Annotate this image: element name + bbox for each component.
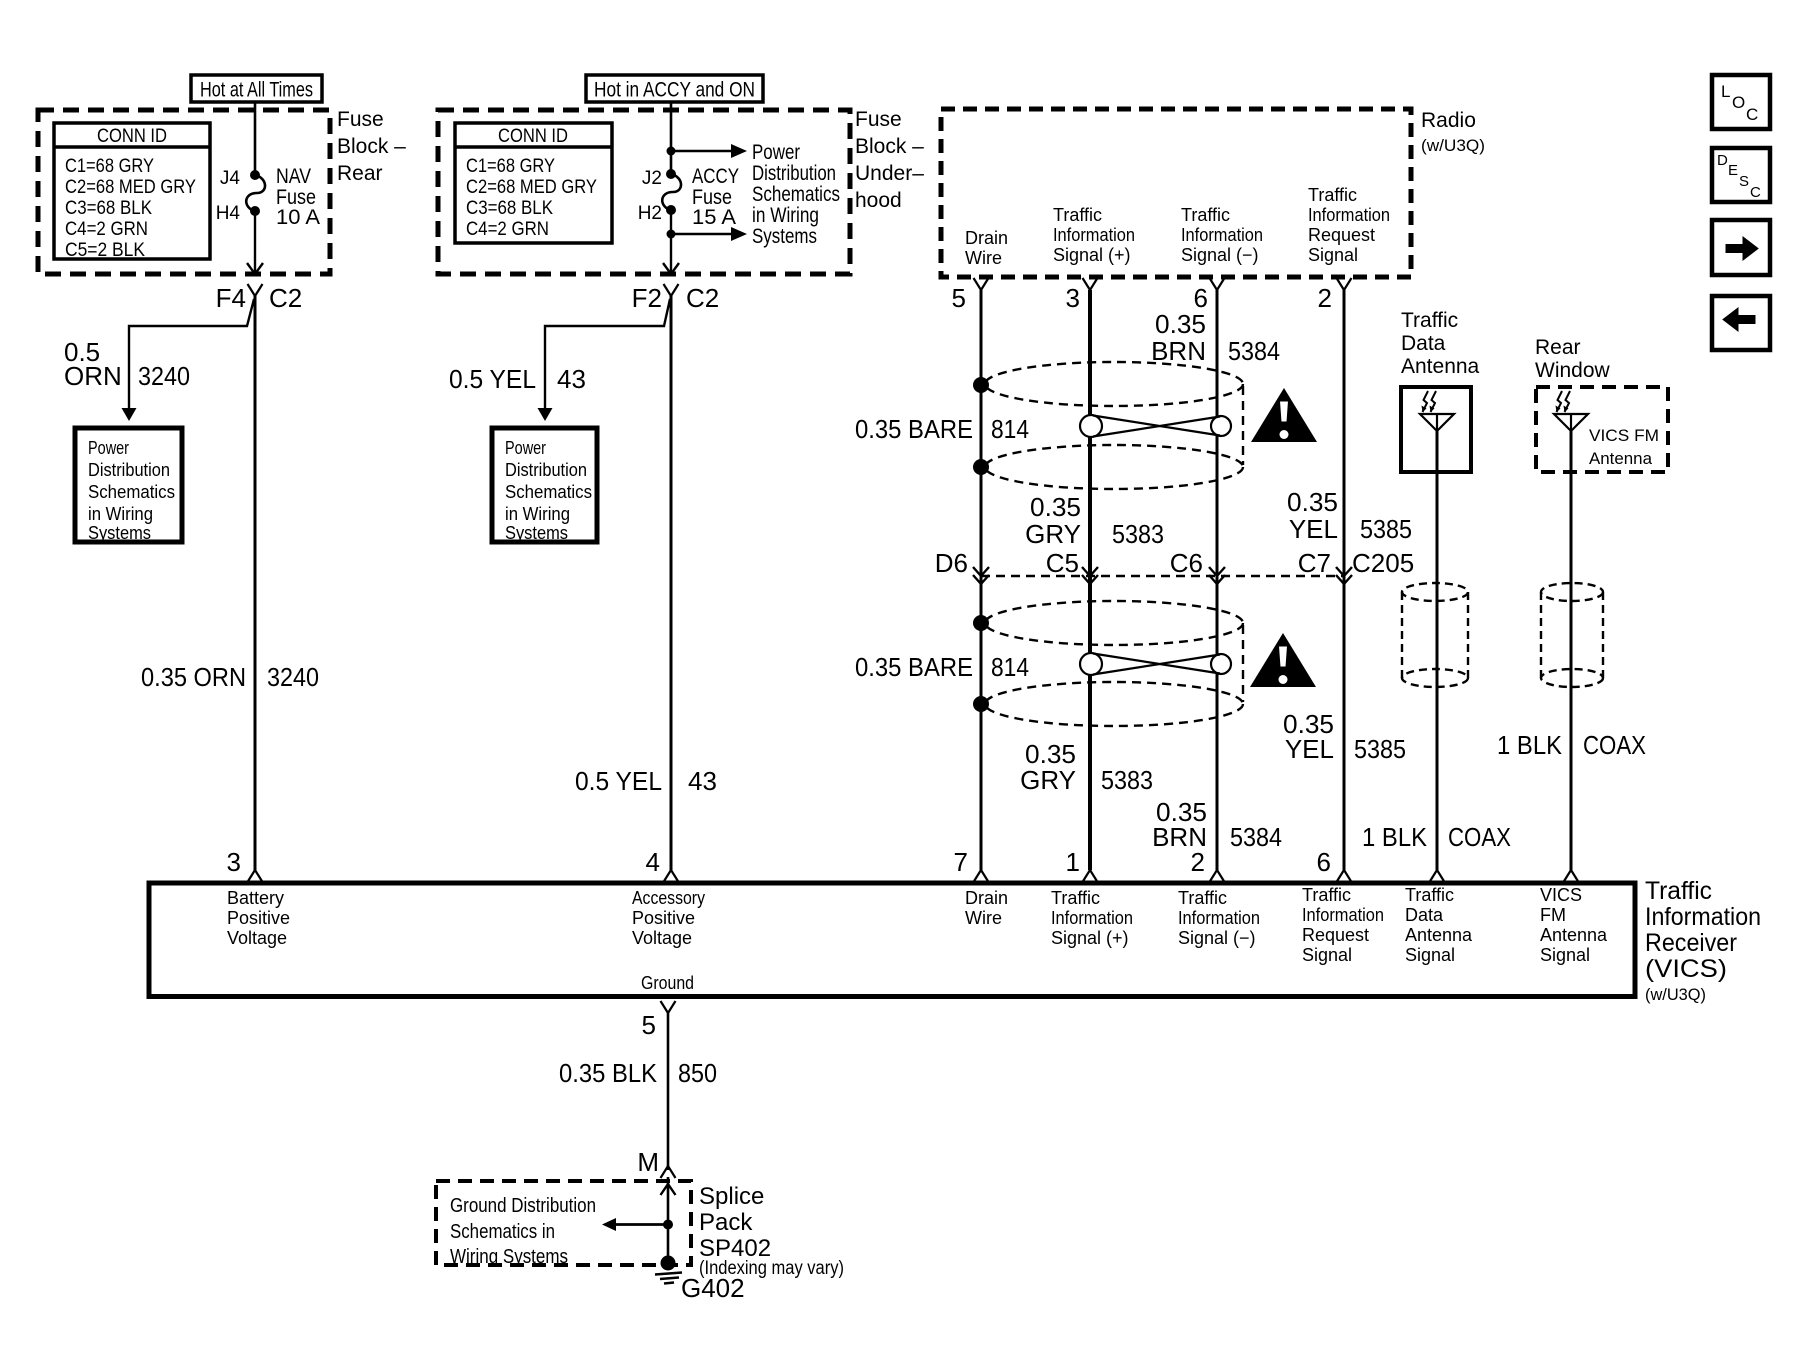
svg-text:Information: Information — [1308, 205, 1390, 225]
svg-text:L: L — [1721, 82, 1730, 101]
svg-text:Traffic: Traffic — [1308, 185, 1357, 205]
wire: traffic information request signal YEL 5385 — [1343, 290, 1346, 870]
svg-text:Systems: Systems — [88, 523, 151, 543]
reference box: Power Distribution Schematics (middle) — [492, 428, 597, 542]
warning symbol (lower) — [1250, 633, 1316, 687]
svg-text:5: 5 — [952, 283, 966, 313]
svg-text:H4: H4 — [216, 203, 241, 224]
reference box: Power Distribution Schematics (left) — [75, 428, 182, 542]
wire: NAV fuse output to connector C2 — [254, 211, 256, 273]
svg-text:Schematics: Schematics — [88, 482, 175, 502]
svg-text:1: 1 — [1066, 847, 1080, 877]
svg-text:CONN ID: CONN ID — [498, 126, 568, 147]
svg-text:Data: Data — [1405, 905, 1444, 925]
svg-text:Accessory: Accessory — [632, 888, 705, 908]
svg-text:6: 6 — [1317, 847, 1331, 877]
svg-text:3: 3 — [1066, 283, 1080, 313]
svg-text:COAX: COAX — [1583, 730, 1646, 760]
svg-text:C: C — [1750, 184, 1761, 201]
svg-text:Request: Request — [1308, 225, 1375, 245]
svg-text:2: 2 — [1318, 283, 1332, 313]
VICS FM antenna symbol — [1554, 414, 1588, 431]
warning symbol (upper) — [1251, 388, 1317, 442]
svg-text:YEL: YEL — [1285, 734, 1334, 764]
svg-text:BRN: BRN — [1151, 336, 1206, 366]
svg-text:Information: Information — [1051, 908, 1133, 928]
wire: 0.35 ORN 3240 to receiver pin 3 — [254, 296, 257, 870]
svg-text:Systems: Systems — [505, 523, 568, 543]
svg-text:G402: G402 — [681, 1273, 745, 1303]
svg-text:F4: F4 — [216, 283, 246, 313]
svg-text:Information: Information — [1645, 903, 1761, 931]
wire: 0.35 BLK 850 ground wire — [667, 1012, 670, 1170]
svg-text:CONN ID: CONN ID — [97, 126, 167, 147]
svg-text:3240: 3240 — [138, 361, 190, 391]
twisted pair shield (upper) — [985, 362, 1243, 406]
svg-text:Schematics: Schematics — [505, 482, 592, 502]
svg-text:Power: Power — [505, 438, 546, 458]
junction: feed to power distribution (lower) — [667, 230, 676, 239]
svg-text:0.35 BARE: 0.35 BARE — [855, 652, 973, 682]
svg-text:0.35: 0.35 — [1155, 309, 1206, 339]
svg-text:C3=68 BLK: C3=68 BLK — [466, 198, 553, 219]
svg-text:in Wiring: in Wiring — [752, 204, 819, 227]
svg-text:Signal (+): Signal (+) — [1053, 245, 1131, 265]
svg-text:Wiring Systems: Wiring Systems — [450, 1246, 568, 1268]
svg-text:Traffic: Traffic — [1302, 885, 1351, 905]
wire: ACCY fuse output to connector C2 — [670, 210, 672, 273]
svg-text:Traffic: Traffic — [1178, 888, 1227, 908]
radio pin 3 connector — [1083, 278, 1098, 290]
twist symbol (upper pair) — [1080, 415, 1102, 437]
svg-text:Drain: Drain — [965, 228, 1008, 248]
svg-text:Signal: Signal — [1308, 245, 1358, 265]
svg-text:Rear: Rear — [337, 162, 383, 185]
wire: 0.5 YEL 43 to receiver pin 4 — [670, 296, 673, 870]
connector F4 / C2 — [248, 284, 263, 296]
wire: traffic information signal - BRN 5384 — [1216, 290, 1219, 870]
svg-text:Block –: Block – — [337, 135, 406, 158]
svg-text:C4=2 GRN: C4=2 GRN — [466, 219, 549, 240]
svg-text:Pack: Pack — [699, 1209, 753, 1236]
svg-text:Positive: Positive — [632, 908, 695, 928]
svg-text:C205: C205 — [1352, 548, 1414, 578]
wire: drain wire (radio to receiver) — [980, 290, 983, 870]
svg-text:Signal (+): Signal (+) — [1051, 928, 1129, 948]
svg-text:5385: 5385 — [1354, 734, 1406, 764]
svg-text:GRY: GRY — [1020, 765, 1076, 795]
ground distribution dashed outline — [436, 1181, 691, 1265]
wire: 0.5 ORN 3240 branch to power distribution — [129, 299, 254, 408]
svg-text:2: 2 — [1191, 847, 1205, 877]
svg-text:Ground Distribution: Ground Distribution — [450, 1195, 596, 1217]
fuse block - rear dashed outline — [38, 110, 330, 274]
svg-text:Information: Information — [1302, 905, 1384, 925]
svg-text:Receiver: Receiver — [1645, 929, 1737, 957]
svg-text:J4: J4 — [220, 168, 241, 189]
svg-text:10 A: 10 A — [276, 206, 320, 229]
svg-text:Splice: Splice — [699, 1183, 764, 1210]
svg-text:Signal (−): Signal (−) — [1181, 245, 1259, 265]
svg-text:(w/U3Q): (w/U3Q) — [1645, 985, 1706, 1004]
traffic data antenna box — [1401, 387, 1471, 472]
svg-text:C1=68 GRY: C1=68 GRY — [65, 156, 154, 177]
svg-text:FM: FM — [1540, 905, 1566, 925]
wire: VICS FM antenna signal coax — [1570, 431, 1573, 870]
svg-text:Information: Information — [1181, 225, 1263, 245]
svg-text:ORN: ORN — [64, 361, 122, 391]
svg-text:Systems: Systems — [752, 225, 817, 248]
svg-text:43: 43 — [688, 766, 717, 796]
svg-text:Window: Window — [1535, 359, 1611, 382]
svg-text:Ground: Ground — [641, 973, 694, 993]
svg-text:814: 814 — [991, 652, 1029, 682]
receiver ground pin 5 connector — [661, 1001, 676, 1013]
svg-text:Fuse: Fuse — [337, 108, 384, 131]
svg-text:3240: 3240 — [267, 662, 319, 692]
svg-text:Antenna: Antenna — [1589, 449, 1653, 468]
nav icon: back arrow — [1712, 296, 1770, 350]
svg-text:Signal (−): Signal (−) — [1178, 928, 1256, 948]
junction: feed to power distribution (upper) — [667, 147, 676, 156]
svg-text:5385: 5385 — [1360, 514, 1412, 544]
svg-text:0.35: 0.35 — [1287, 487, 1338, 517]
svg-text:O: O — [1732, 93, 1745, 112]
svg-text:5383: 5383 — [1112, 519, 1164, 549]
svg-text:hood: hood — [855, 189, 902, 212]
svg-text:43: 43 — [557, 364, 586, 394]
fuse: ACCY Fuse 15 A — [666, 169, 676, 179]
svg-text:Traffic: Traffic — [1051, 888, 1100, 908]
svg-text:Distribution: Distribution — [88, 460, 170, 480]
connector ID table (fuse block - rear) — [54, 123, 210, 259]
svg-text:ACCY: ACCY — [692, 165, 739, 188]
svg-text:1 BLK: 1 BLK — [1362, 822, 1428, 852]
svg-text:Traffic: Traffic — [1181, 205, 1230, 225]
svg-text:Distribution: Distribution — [505, 460, 587, 480]
svg-text:(w/U3Q): (w/U3Q) — [1421, 136, 1485, 155]
svg-text:NAV: NAV — [276, 165, 311, 188]
svg-text:814: 814 — [991, 414, 1029, 444]
svg-text:C6: C6 — [1170, 548, 1203, 578]
svg-text:in Wiring: in Wiring — [505, 504, 570, 524]
svg-text:Schematics: Schematics — [752, 183, 840, 206]
svg-text:VICS: VICS — [1540, 885, 1582, 905]
svg-text:Wire: Wire — [965, 248, 1002, 268]
nav icon: forward arrow — [1712, 220, 1770, 275]
svg-text:Signal: Signal — [1302, 945, 1352, 965]
svg-text:Request: Request — [1302, 925, 1369, 945]
svg-text:C2: C2 — [686, 283, 719, 313]
label box: Hot in ACCY and ON — [586, 75, 763, 102]
traffic information receiver (VICS) box — [149, 883, 1635, 997]
svg-text:Battery: Battery — [227, 888, 284, 908]
svg-text:0.5 YEL: 0.5 YEL — [449, 364, 536, 394]
svg-text:Under–: Under– — [855, 162, 924, 185]
svg-text:Antenna: Antenna — [1401, 355, 1480, 378]
svg-text:0.5 YEL: 0.5 YEL — [575, 766, 662, 796]
svg-text:Block –: Block – — [855, 135, 924, 158]
svg-text:Hot in ACCY and ON: Hot in ACCY and ON — [594, 79, 755, 102]
svg-text:C3=68 BLK: C3=68 BLK — [65, 198, 152, 219]
svg-text:Distribution: Distribution — [752, 162, 836, 185]
svg-text:Voltage: Voltage — [632, 928, 692, 948]
svg-text:C7: C7 — [1298, 548, 1331, 578]
svg-text:GRY: GRY — [1025, 519, 1081, 549]
svg-text:5384: 5384 — [1228, 336, 1280, 366]
svg-text:S: S — [1739, 173, 1749, 190]
wire: accessory feed from Hot in ACCY and ON — [670, 102, 673, 174]
svg-text:Antenna: Antenna — [1405, 925, 1473, 945]
rear window dashed outline — [1536, 387, 1668, 472]
svg-text:4: 4 — [646, 847, 660, 877]
svg-text:C5=2 BLK: C5=2 BLK — [65, 240, 145, 261]
shield drain junction (upper pair, bottom) — [973, 459, 989, 475]
svg-text:in Wiring: in Wiring — [88, 504, 153, 524]
svg-text:Power: Power — [752, 141, 800, 164]
nav icon: LOC — [1712, 75, 1770, 129]
svg-text:Hot at All Times: Hot at All Times — [200, 79, 313, 102]
svg-text:Voltage: Voltage — [227, 928, 287, 948]
wire: 0.5 YEL 43 branch to power distribution — [545, 299, 670, 408]
fuse: NAV Fuse 10 A — [250, 170, 260, 180]
svg-text:Traffic: Traffic — [1401, 309, 1458, 332]
svg-text:3: 3 — [227, 847, 241, 877]
svg-text:Traffic: Traffic — [1053, 205, 1102, 225]
svg-text:Signal: Signal — [1540, 945, 1590, 965]
in-line connector row C205 — [981, 575, 1344, 577]
radio dashed outline — [941, 109, 1411, 277]
svg-text:J2: J2 — [642, 168, 662, 189]
svg-text:Traffic: Traffic — [1405, 885, 1454, 905]
coax connector (VICS FM antenna) — [1541, 583, 1603, 601]
radio pin 6 connector — [1210, 278, 1225, 290]
fuse block - underhood dashed outline — [438, 110, 850, 274]
shield drain junction (lower pair, top) — [973, 615, 989, 631]
svg-text:M: M — [637, 1147, 659, 1177]
nav icon: DESC — [1712, 148, 1770, 202]
svg-text:C5: C5 — [1046, 548, 1079, 578]
svg-text:COAX: COAX — [1448, 822, 1511, 852]
connector ID table (fuse block - underhood) — [455, 123, 612, 243]
twisted pair shield (lower) — [985, 601, 1243, 645]
svg-text:H2: H2 — [638, 203, 662, 224]
svg-text:C: C — [1746, 105, 1758, 124]
svg-text:Traffic: Traffic — [1645, 877, 1712, 905]
connector F2 / C2 — [664, 284, 679, 296]
svg-text:C2=68 MED GRY: C2=68 MED GRY — [65, 177, 196, 198]
svg-text:Data: Data — [1401, 332, 1446, 355]
shield drain junction (lower pair, bottom) — [973, 696, 989, 712]
svg-text:Wire: Wire — [965, 908, 1002, 928]
svg-text:E: E — [1728, 162, 1738, 179]
traffic data antenna symbol — [1420, 414, 1454, 431]
svg-text:YEL: YEL — [1289, 514, 1338, 544]
svg-text:1 BLK: 1 BLK — [1497, 730, 1563, 760]
radio pin 2 connector — [1337, 278, 1352, 290]
branch arrow to ground distribution — [616, 1223, 668, 1226]
wire: battery feed from Hot at All Times — [254, 102, 257, 171]
svg-text:850: 850 — [678, 1058, 717, 1088]
wire: traffic data antenna signal coax — [1436, 431, 1439, 870]
svg-text:5: 5 — [642, 1010, 656, 1040]
svg-text:F2: F2 — [632, 283, 662, 313]
svg-text:0.35 ORN: 0.35 ORN — [141, 662, 246, 692]
wire: splice pack internal — [661, 1184, 676, 1195]
svg-text:C1=68 GRY: C1=68 GRY — [466, 156, 555, 177]
coax connector (traffic data antenna) — [1402, 583, 1468, 601]
svg-text:Power: Power — [88, 438, 129, 458]
wire: traffic information signal + GRY 5383 — [1088, 290, 1092, 870]
svg-text:0.35: 0.35 — [1030, 492, 1081, 522]
svg-text:Fuse: Fuse — [855, 108, 902, 131]
twist symbol (lower pair) — [1080, 653, 1102, 675]
svg-text:Schematics in: Schematics in — [450, 1221, 555, 1243]
svg-text:Positive: Positive — [227, 908, 290, 928]
svg-text:C2: C2 — [269, 283, 302, 313]
svg-text:D: D — [1717, 152, 1728, 169]
svg-text:Radio: Radio — [1421, 109, 1476, 132]
label box: Hot at All Times — [191, 75, 322, 102]
svg-text:C4=2 GRN: C4=2 GRN — [65, 219, 148, 240]
svg-text:C2=68 MED GRY: C2=68 MED GRY — [466, 177, 597, 198]
svg-text:0.35 BLK: 0.35 BLK — [559, 1058, 658, 1088]
svg-text:0.35 BARE: 0.35 BARE — [855, 414, 973, 444]
svg-text:Signal: Signal — [1405, 945, 1455, 965]
svg-text:Drain: Drain — [965, 888, 1008, 908]
svg-text:7: 7 — [954, 847, 968, 877]
svg-text:Rear: Rear — [1535, 336, 1581, 359]
radio pin 5 connector — [974, 278, 989, 290]
svg-text:Antenna: Antenna — [1540, 925, 1608, 945]
ground G402 symbol — [661, 1256, 676, 1271]
svg-text:D6: D6 — [935, 548, 968, 578]
shield drain junction (upper pair, top) — [973, 377, 989, 393]
svg-text:15 A: 15 A — [692, 206, 736, 229]
svg-text:VICS FM: VICS FM — [1589, 426, 1659, 445]
svg-text:Information: Information — [1178, 908, 1260, 928]
svg-text:(VICS): (VICS) — [1645, 955, 1727, 983]
svg-text:5384: 5384 — [1230, 822, 1282, 852]
splice junction SP402 — [663, 1220, 673, 1230]
svg-text:Information: Information — [1053, 225, 1135, 245]
svg-text:5383: 5383 — [1101, 765, 1153, 795]
